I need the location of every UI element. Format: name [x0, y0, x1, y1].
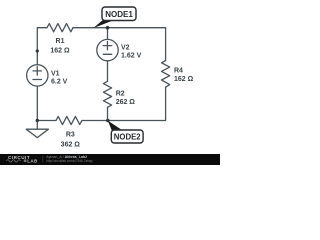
svg-text:R1: R1	[56, 38, 65, 45]
svg-text:R2: R2	[116, 91, 125, 98]
svg-text:http://circuitlab.com/c/7546-7: http://circuitlab.com/c/7546-7ahqq	[46, 159, 92, 163]
svg-text:NODE1: NODE1	[105, 10, 133, 19]
svg-text:V1: V1	[51, 71, 60, 78]
svg-text:LAB: LAB	[27, 158, 38, 163]
svg-text:1.62 V: 1.62 V	[121, 53, 142, 60]
svg-text:6.2 V: 6.2 V	[51, 79, 68, 86]
svg-text:162 Ω: 162 Ω	[50, 48, 70, 55]
svg-text:NODE2: NODE2	[114, 133, 142, 142]
svg-text:162 Ω: 162 Ω	[174, 76, 194, 83]
svg-text:V2: V2	[121, 45, 130, 52]
svg-text:R3: R3	[66, 131, 75, 138]
svg-text:362 Ω: 362 Ω	[61, 141, 81, 148]
svg-text:R4: R4	[174, 68, 183, 75]
svg-text:262 Ω: 262 Ω	[116, 99, 136, 106]
